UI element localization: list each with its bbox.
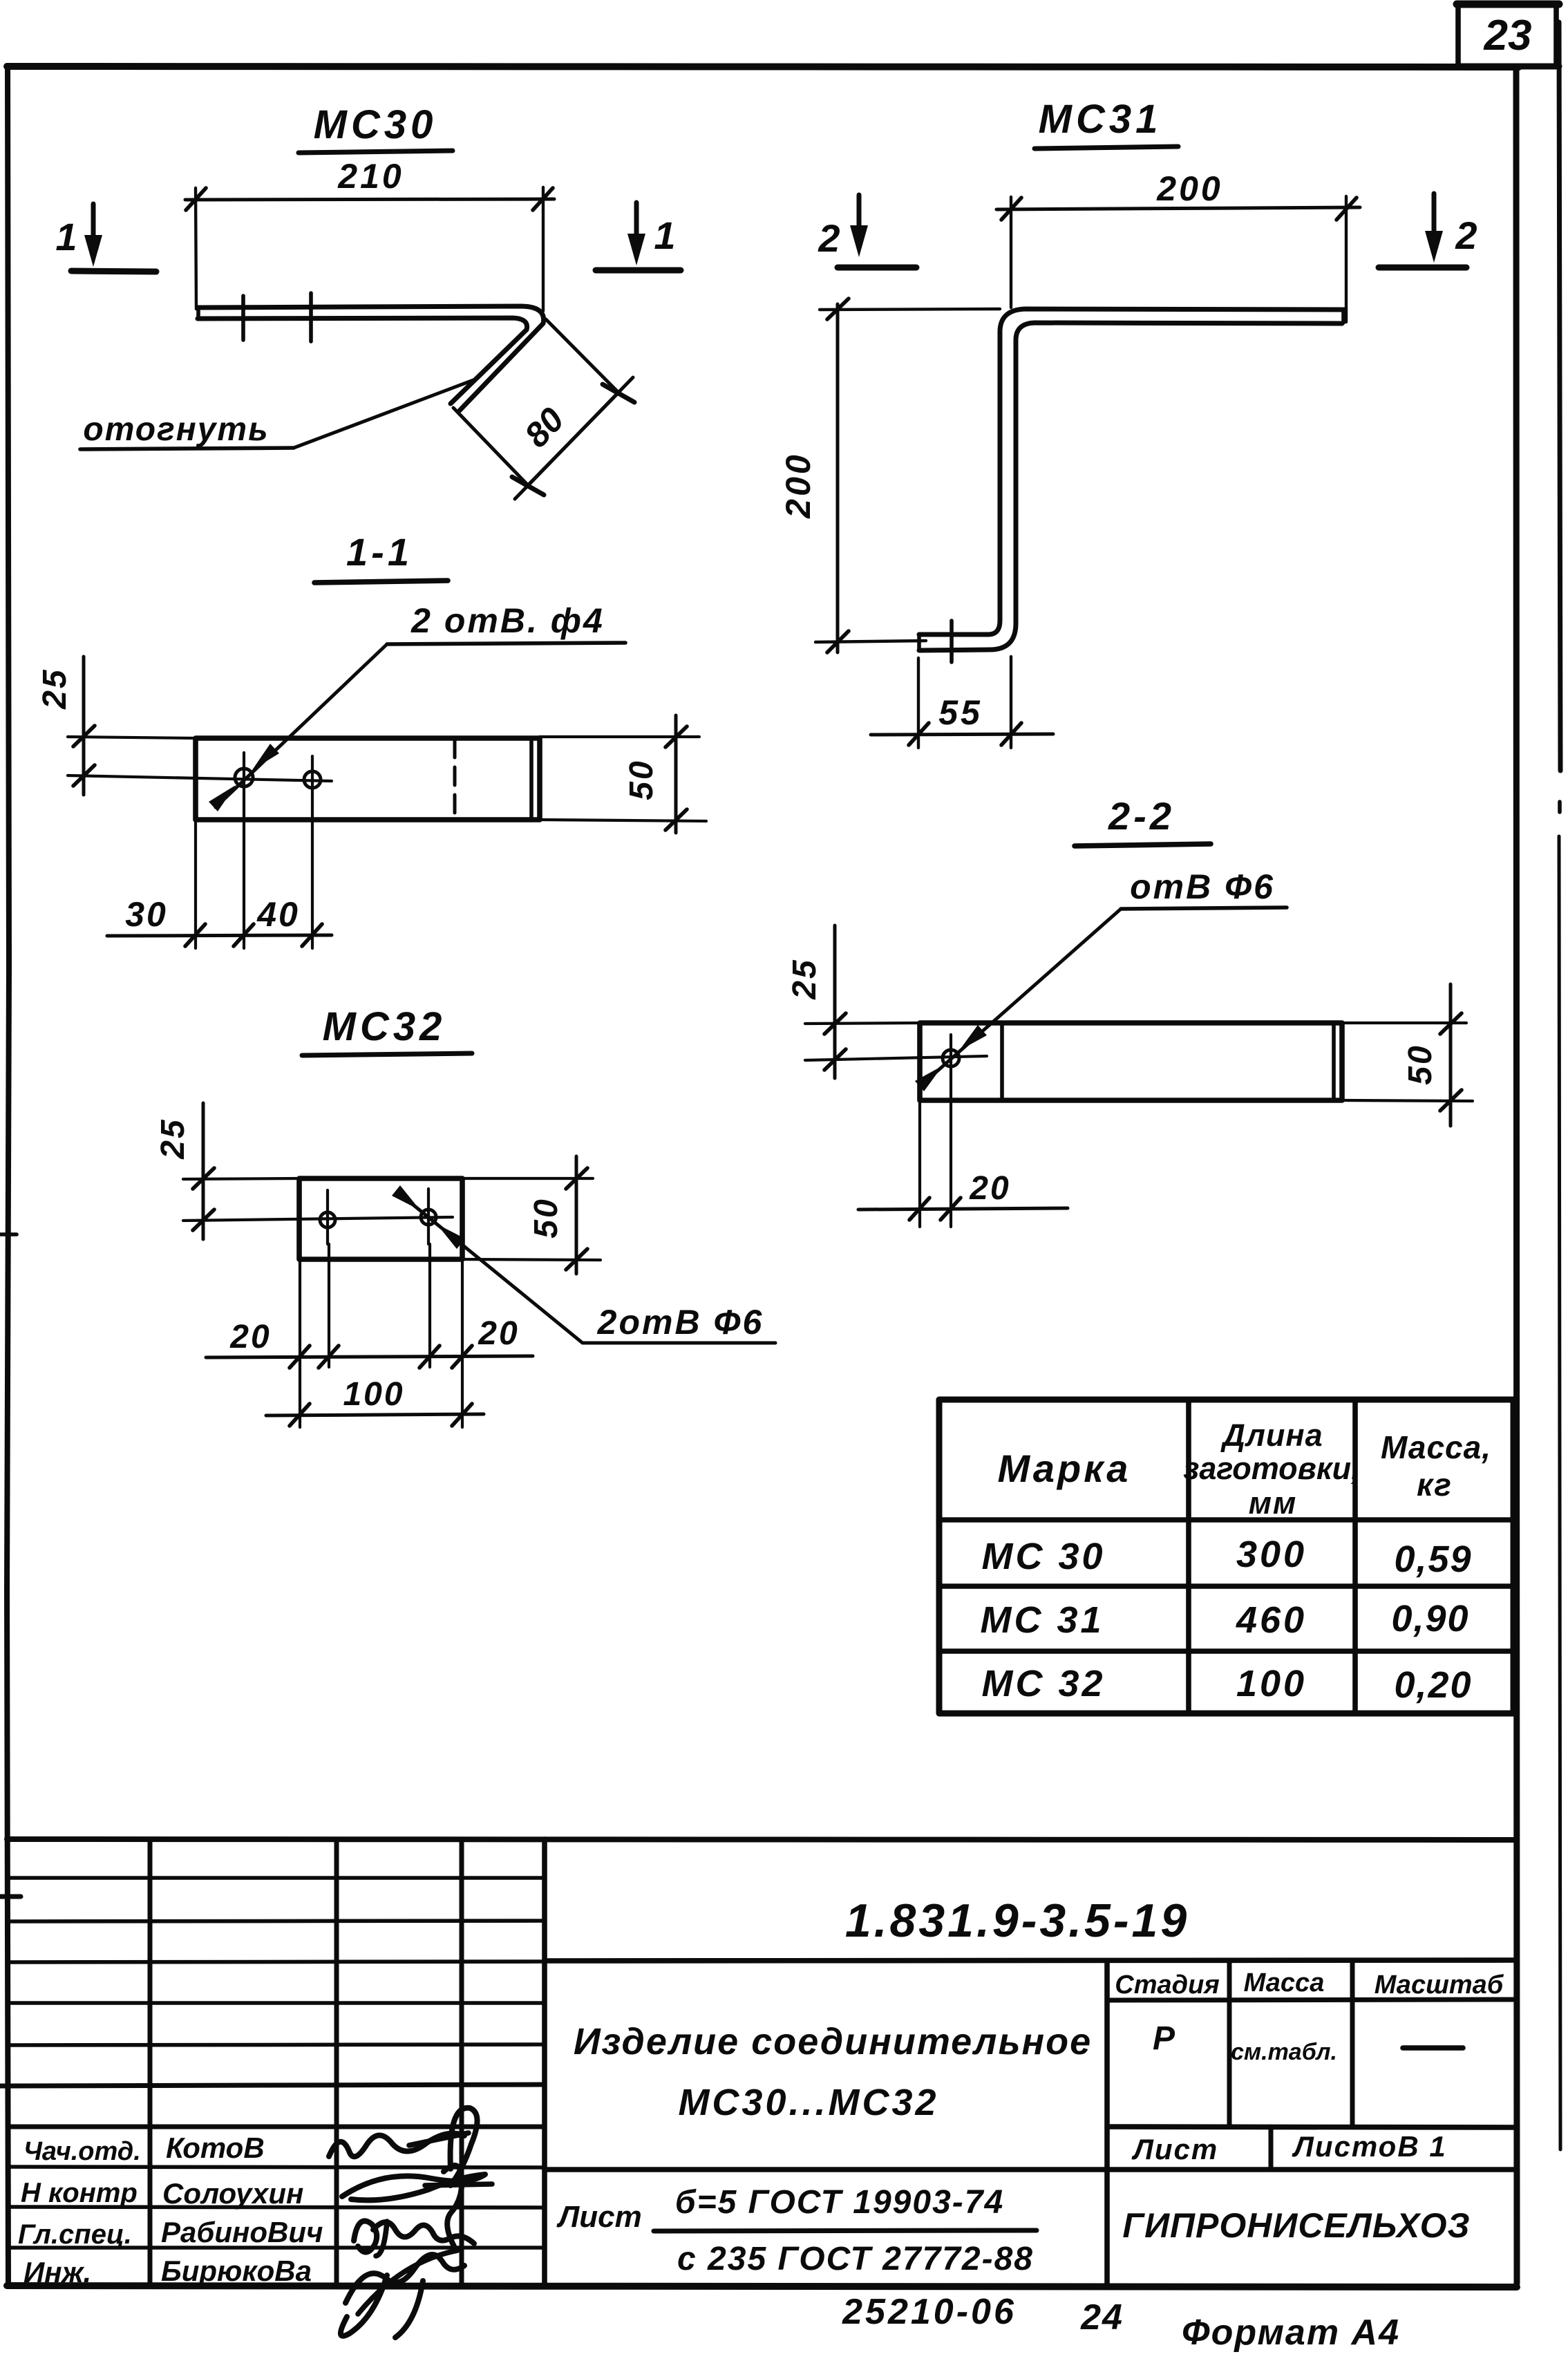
title block left grid horizontal lines	[8, 1878, 545, 2248]
svg-text:Инж.: Инж.	[23, 2256, 91, 2288]
section 1-1 holes center line	[68, 775, 332, 781]
MC30 section mark 1 right	[596, 203, 681, 270]
svg-text:50: 50	[528, 1197, 565, 1238]
MC31 hole position tick on bottom leg	[950, 621, 954, 662]
svg-text:Марка: Марка	[998, 1447, 1131, 1490]
svg-text:Изделие соединительное: Изделие соединительное	[574, 2021, 1092, 2062]
svg-text:МС31: МС31	[1039, 97, 1162, 142]
section 1-1 dimension 25 left	[37, 657, 196, 795]
MC32 holes center line	[183, 1217, 453, 1221]
signature scribble 2 (Солоухин)	[342, 2165, 492, 2248]
section 1-1 bottom dimensions 30 and 40	[107, 802, 332, 948]
title block left grid vertical lines	[150, 1839, 545, 2286]
MC30 dimension 210 text	[337, 157, 404, 196]
svg-text:отВ Ф6: отВ Ф6	[1130, 867, 1275, 906]
svg-text:2: 2	[818, 216, 840, 260]
svg-text:50: 50	[1402, 1044, 1439, 1084]
view MC30 title	[299, 102, 453, 153]
svg-text:МС30...МС32: МС30...МС32	[678, 2082, 938, 2123]
MC31 profile end edges	[919, 310, 1343, 650]
svg-text:мм: мм	[1249, 1485, 1298, 1521]
svg-text:Лист: Лист	[1131, 2133, 1218, 2165]
svg-text:ГИПРОНИСЕЛЬХОЗ: ГИПРОНИСЕЛЬХОЗ	[1122, 2206, 1470, 2245]
svg-text:23: 23	[1484, 12, 1532, 59]
MC32 dimension 25 left	[155, 1103, 299, 1239]
svg-text:Лист: Лист	[556, 2200, 642, 2234]
section 1-1 bend dashed line	[453, 740, 457, 818]
MC32 plate rectangle	[299, 1178, 462, 1259]
parts table row MC32	[981, 1663, 1472, 1706]
svg-text:Чач.отд.: Чач.отд.	[23, 2137, 141, 2166]
MC31 Z-profile outer line	[919, 309, 1345, 634]
title block row Лист / Листов 1	[545, 2127, 1517, 2170]
title block name cell Изделие соединительное МС30...МС32	[574, 1961, 1107, 2286]
svg-text:100: 100	[343, 1376, 404, 1413]
left margin tick marks	[0, 1234, 21, 2086]
bottom annotation Формат А4	[1182, 2313, 1400, 2353]
bottom annotation 25210-06	[842, 2292, 1017, 2332]
svg-text:КотоВ: КотоВ	[166, 2132, 265, 2164]
svg-text:200: 200	[779, 452, 818, 518]
svg-text:25: 25	[155, 1118, 191, 1159]
page border frame top line	[7, 66, 1519, 67]
title block top line	[7, 1839, 1517, 1840]
signature scribble 1 (Котов)	[329, 2108, 478, 2185]
MC30 dimension 80 along flap edge	[512, 377, 634, 499]
section 1-1 title	[314, 530, 448, 583]
svg-text:см.табл.: см.табл.	[1231, 2039, 1337, 2065]
svg-text:25: 25	[37, 668, 73, 709]
MC31 section mark 2 left	[818, 195, 916, 267]
svg-text:1: 1	[654, 214, 675, 257]
MC30 section mark 1 left	[55, 204, 156, 272]
MC30 label отогнуть with leader	[80, 379, 477, 449]
section 2-2 hole label отВ Ф6 with leader	[915, 867, 1287, 1091]
title block material cell Лист б=5 ГОСТ 19903-74 / с 235 ГОСТ 27772-88	[556, 2184, 1037, 2277]
MC30 bent plate strip (outer surface line)	[198, 306, 544, 411]
svg-text:2 отВ. ф4: 2 отВ. ф4	[410, 601, 605, 640]
svg-text:210: 210	[337, 157, 404, 196]
parts table header Марка	[998, 1447, 1131, 1490]
section 2-2 dimension 20 bottom	[858, 1082, 1068, 1227]
svg-text:МС32: МС32	[323, 1004, 446, 1049]
svg-text:МС 31: МС 31	[980, 1599, 1104, 1641]
section 1-1 hole 1	[235, 753, 253, 802]
MC30 flap outline square (thin lines)	[453, 319, 618, 485]
MC32 bottom dimensions 20 20	[206, 1244, 533, 1427]
svg-text:МС 30: МС 30	[981, 1536, 1105, 1577]
title block signature row Н контр Солоухин	[21, 2177, 303, 2210]
svg-text:55: 55	[938, 693, 983, 732]
MC31 dimension 200 left vertical	[779, 299, 1000, 652]
title block document number 1.831.9-3.5-19	[545, 1894, 1517, 1961]
svg-text:2-2: 2-2	[1108, 794, 1175, 838]
section 2-2 bend line	[1000, 1024, 1004, 1099]
view MC31 title	[1035, 97, 1178, 149]
svg-text:25: 25	[786, 958, 823, 999]
svg-text:Р: Р	[1153, 2020, 1175, 2057]
svg-text:Масштаб: Масштаб	[1375, 1970, 1504, 2000]
section 2-2 hole	[805, 1035, 987, 1082]
title block signature row Гл. спец. Рабинович	[18, 2216, 323, 2250]
svg-text:БирюкоВа: БирюкоВа	[161, 2255, 312, 2287]
svg-text:б=5 ГОСТ 19903-74: б=5 ГОСТ 19903-74	[675, 2184, 1004, 2221]
title block stage P, mass see table, scale dash	[1153, 2020, 1463, 2065]
MC31 dimension 200 top text	[1156, 169, 1222, 208]
svg-text:20: 20	[478, 1315, 519, 1352]
page border frame bottom line (title block bottom)	[7, 2286, 1517, 2287]
parts table header Масса кг	[1381, 1429, 1491, 1503]
section 2-2 title	[1075, 794, 1211, 846]
MC32 bottom dimension 100	[266, 1376, 484, 1426]
MC31 Z-profile inner line	[919, 323, 1342, 650]
title block signature row Нач. отд. Котов	[23, 2132, 265, 2166]
page border frame left line	[7, 66, 9, 2285]
sheet number 23	[1484, 12, 1532, 59]
page border frame right line	[1516, 66, 1517, 2284]
svg-text:300: 300	[1236, 1534, 1307, 1575]
svg-text:1.831.9-3.5-19: 1.831.9-3.5-19	[845, 1894, 1189, 1947]
svg-text:20: 20	[229, 1319, 271, 1355]
MC31 section mark 2 right	[1379, 194, 1477, 267]
svg-text:Формат А4: Формат А4	[1182, 2313, 1400, 2353]
MC32 hole 2	[421, 1189, 436, 1244]
svg-text:1-1: 1-1	[346, 530, 413, 574]
svg-text:заготовки,: заготовки,	[1183, 1451, 1359, 1486]
svg-text:РабиноВич: РабиноВич	[161, 2216, 323, 2248]
MC32 hole label 2отВ Ф6 with leader	[392, 1185, 775, 1343]
svg-text:МС30: МС30	[314, 102, 437, 147]
svg-text:40: 40	[256, 895, 300, 934]
MC32 dimension 50 right	[462, 1156, 601, 1274]
svg-text:кг: кг	[1417, 1467, 1453, 1503]
svg-text:200: 200	[1156, 169, 1222, 208]
svg-text:0,90: 0,90	[1391, 1598, 1469, 1639]
parts table column lines	[1189, 1400, 1355, 1713]
right paper edge line	[1559, 22, 1560, 2150]
title block sub-table Стадия Масса Масштаб	[1107, 1961, 1517, 2127]
svg-text:МС 32: МС 32	[981, 1663, 1105, 1704]
svg-text:100: 100	[1236, 1663, 1307, 1704]
section 1-1 hole label 2 отв. ф4 with leader	[209, 601, 625, 811]
svg-text:25210-06: 25210-06	[842, 2292, 1017, 2332]
section 1-1 hole 2	[304, 756, 321, 802]
MC31 dimension 55 bottom	[871, 657, 1053, 748]
section 2-2 dimension 50 right	[1342, 984, 1473, 1126]
svg-text:Солоухин: Солоухин	[162, 2177, 303, 2210]
svg-text:50: 50	[623, 759, 660, 800]
svg-text:Масса,: Масса,	[1381, 1429, 1491, 1465]
svg-text:24: 24	[1080, 2297, 1124, 2338]
signature scribble 4 (Бирюкова)	[341, 2250, 464, 2338]
bottom annotation sheet 24	[1080, 2297, 1124, 2338]
title block organization ГИПРОНИСЕЛЬХОЗ	[1122, 2206, 1470, 2245]
section 2-2 plate rectangle	[920, 1023, 1342, 1100]
svg-text:Длина: Длина	[1220, 1418, 1323, 1453]
signature scribble 3 (Рабинович)	[354, 2221, 474, 2256]
svg-text:Гл.спец.: Гл.спец.	[18, 2219, 132, 2250]
MC32 hole 1	[320, 1190, 335, 1244]
svg-text:отогнуть: отогнуть	[83, 411, 269, 448]
MC31 dimension 200 top line with ticks	[996, 196, 1360, 322]
parts table row MC31	[980, 1598, 1469, 1641]
MC30 bent plate strip (inner surface line)	[198, 308, 527, 404]
section 1-1 plate rectangle	[196, 738, 540, 820]
svg-text:0,20: 0,20	[1394, 1664, 1472, 1706]
MC30 dimension 210 line with ticks	[185, 187, 554, 311]
MC30 hole position ticks on strip	[243, 293, 311, 341]
title block signature row Инж. Бирюкова	[23, 2255, 312, 2288]
svg-text:20: 20	[969, 1170, 1010, 1207]
svg-text:30: 30	[125, 895, 168, 934]
view MC32 title	[302, 1004, 472, 1055]
section 2-2 dimension 25 left	[786, 925, 920, 1078]
svg-text:2отВ Ф6: 2отВ Ф6	[597, 1303, 764, 1342]
parts table row MC30	[981, 1534, 1472, 1580]
sheet number box top-right	[1457, 3, 1559, 66]
svg-text:1: 1	[55, 215, 77, 258]
svg-text:2: 2	[1455, 214, 1477, 257]
svg-text:ЛистоВ 1: ЛистоВ 1	[1292, 2130, 1447, 2163]
svg-text:Н контр: Н контр	[21, 2178, 138, 2208]
svg-text:0,59: 0,59	[1394, 1539, 1472, 1580]
parts table row lines	[939, 1520, 1513, 1651]
section 1-1 dimension 50 right	[540, 715, 706, 833]
svg-text:с 235 ГОСТ 27772-88: с 235 ГОСТ 27772-88	[677, 2241, 1034, 2277]
svg-text:460: 460	[1236, 1599, 1307, 1641]
parts table header Длина заготовки мм	[1183, 1418, 1359, 1521]
parts table outer border	[939, 1400, 1513, 1713]
svg-text:Стадия: Стадия	[1115, 1970, 1219, 2000]
svg-text:Масса: Масса	[1244, 1968, 1325, 1997]
